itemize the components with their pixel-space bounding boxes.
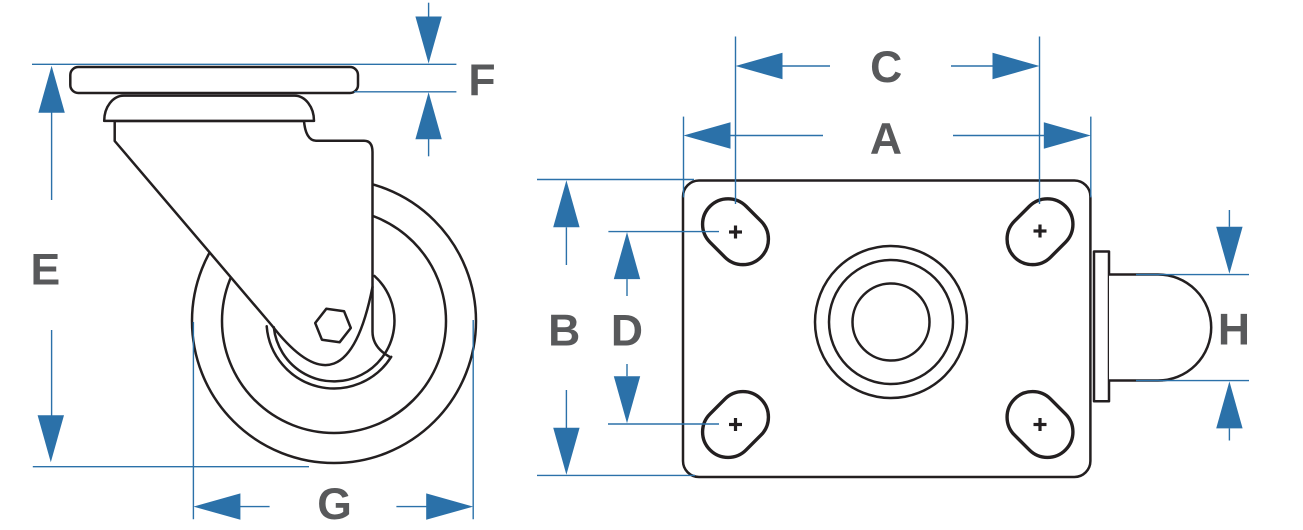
svg-text:G: G	[317, 480, 352, 529]
svg-text:B: B	[548, 307, 580, 356]
svg-text:E: E	[30, 245, 60, 294]
svg-text:C: C	[870, 43, 902, 92]
svg-text:D: D	[611, 307, 643, 356]
svg-text:H: H	[1218, 306, 1250, 355]
svg-text:F: F	[468, 57, 495, 106]
svg-text:A: A	[870, 115, 902, 164]
